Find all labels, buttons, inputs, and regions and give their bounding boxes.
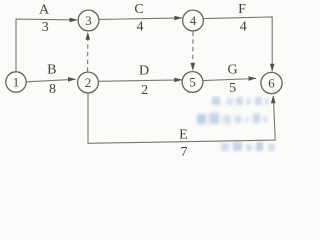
svg-text:4: 4 xyxy=(190,13,197,28)
svg-text:3: 3 xyxy=(85,13,92,28)
svg-text:5: 5 xyxy=(229,81,236,96)
svg-text:A: A xyxy=(39,3,50,18)
svg-text:4: 4 xyxy=(240,20,247,35)
wire D: node 2 to node 5 xyxy=(99,80,183,81)
node 5 xyxy=(182,72,203,93)
arrowhead of G into node 6 xyxy=(249,76,257,81)
arrowhead of A into node 3 xyxy=(70,18,78,23)
arrowhead of F into node 6 (downward) xyxy=(270,64,275,72)
arrowhead of D into node 5 xyxy=(174,78,182,83)
watermark blue text row 2 xyxy=(197,113,267,124)
svg-text:F: F xyxy=(238,2,246,17)
svg-text:2: 2 xyxy=(141,83,148,98)
node 4 xyxy=(183,10,204,31)
background paper xyxy=(0,0,293,163)
svg-text:C: C xyxy=(134,2,143,17)
svg-text:8: 8 xyxy=(49,82,56,97)
svg-text:1: 1 xyxy=(13,75,20,90)
wire G: node 5 to node 6 xyxy=(203,79,256,81)
svg-text:4: 4 xyxy=(137,20,144,35)
svg-text:2: 2 xyxy=(85,75,92,90)
watermark blue text row 1 xyxy=(212,97,269,105)
wire F: node 4 right then down to node 6 xyxy=(204,17,272,71)
dashed dummy wire node 2 to node 3 xyxy=(87,38,89,72)
arrowhead of dummy into node 3 (upward) xyxy=(86,32,91,40)
svg-text:5: 5 xyxy=(189,75,196,90)
arrowhead of E into node 6 (upward) xyxy=(271,95,276,103)
svg-text:G: G xyxy=(228,63,238,78)
svg-text:D: D xyxy=(139,64,149,79)
svg-text:3: 3 xyxy=(42,20,49,35)
wire E: node 2 down, across bottom, up into node 6 xyxy=(88,93,275,143)
dashed dummy wire node 4 to node 5 xyxy=(192,32,194,65)
svg-text:7: 7 xyxy=(181,145,188,160)
svg-text:6: 6 xyxy=(268,76,275,91)
node 3 xyxy=(78,10,99,31)
node 1 xyxy=(6,72,26,92)
arrowhead of C into node 4 xyxy=(174,16,182,21)
arrowhead of B into node 2 xyxy=(68,77,76,82)
wire C: node 3 to node 4 xyxy=(100,18,183,20)
node 2 xyxy=(78,72,99,93)
node 6 xyxy=(261,72,282,93)
svg-text:B: B xyxy=(47,63,56,78)
wire A: vertical from node 1 up xyxy=(16,19,77,72)
svg-text:E: E xyxy=(179,128,188,143)
arrowhead of dummy into node 5 (downward) xyxy=(191,63,196,71)
wire B: node 1 to node 2 xyxy=(27,79,76,82)
watermark blue text row 3 xyxy=(221,142,275,151)
